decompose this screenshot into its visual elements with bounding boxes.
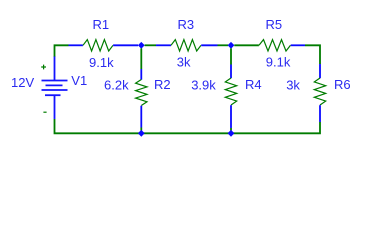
svg-text:R4: R4 xyxy=(245,77,262,92)
node D junction diamond (bottom middle) xyxy=(228,130,235,137)
wire R2 top lead green part xyxy=(140,48,142,69)
svg-text:12V: 12V xyxy=(11,75,34,90)
wire node A to R3 green part xyxy=(145,44,156,46)
resistor R3 xyxy=(171,40,201,51)
voltage source V1 top lead (blue) xyxy=(54,57,56,81)
wire top-left blue segment before R1 xyxy=(69,44,83,46)
wire R4 top lead blue part xyxy=(230,65,232,79)
svg-text:R5: R5 xyxy=(266,17,283,32)
V1 bottom lead (blue) xyxy=(54,95,56,119)
svg-text:R1: R1 xyxy=(93,17,110,32)
wire R1 to node A (blue) xyxy=(113,44,138,46)
resistor R5 xyxy=(259,40,291,51)
svg-text:R6: R6 xyxy=(334,77,351,92)
node C junction diamond (bottom left) xyxy=(138,130,145,137)
resistor R6 xyxy=(314,78,325,105)
resistor R2 xyxy=(136,80,147,106)
wire R2 top lead blue part xyxy=(140,69,142,80)
wire R6 bottom lead (blue) xyxy=(319,105,321,122)
V1 battery plate 2 short xyxy=(46,84,63,86)
svg-text:V1: V1 xyxy=(71,73,87,88)
wire bottom rail from R6 to V1 (green) xyxy=(55,119,321,133)
V1 battery plate 1 long xyxy=(42,80,68,82)
wire R4 top lead green part xyxy=(230,48,232,64)
node B junction diamond xyxy=(228,42,235,49)
V1 battery plate 3 long xyxy=(42,89,68,91)
V1 plus sign xyxy=(41,65,46,70)
wire top-right corner into R6 branch (green) xyxy=(305,45,320,64)
svg-text:R2: R2 xyxy=(154,77,171,92)
wire R5 to corner blue part xyxy=(291,44,305,46)
node A junction diamond xyxy=(138,42,145,49)
svg-text:R3: R3 xyxy=(178,17,195,32)
wire top-left corner from V1 to R1 (green) xyxy=(55,45,69,57)
wire R6 top lead (blue) xyxy=(319,64,321,78)
svg-text:3k: 3k xyxy=(286,78,300,93)
wire node A to R3 blue part xyxy=(156,44,171,46)
svg-text:3.9k: 3.9k xyxy=(191,78,216,93)
resistor R4 xyxy=(225,78,236,105)
svg-text:9.1k: 9.1k xyxy=(89,55,114,70)
wire R4 bottom lead blue part xyxy=(230,105,232,128)
wire R2 bottom lead green part xyxy=(140,128,142,131)
svg-text:9.1k: 9.1k xyxy=(266,55,291,70)
wire R4 bottom lead green part xyxy=(230,128,232,131)
wire R2 bottom lead blue part xyxy=(140,106,142,128)
V1 battery plate 4 short xyxy=(45,94,61,96)
wire node B to R5 xyxy=(234,44,259,46)
wire R3 to node B green part xyxy=(218,44,229,46)
svg-text:3k: 3k xyxy=(177,55,191,70)
svg-text:6.2k: 6.2k xyxy=(104,78,129,93)
resistor R1 xyxy=(83,40,113,51)
wire R3 to node B blue part xyxy=(201,44,217,46)
V1 minus sign xyxy=(43,111,46,113)
